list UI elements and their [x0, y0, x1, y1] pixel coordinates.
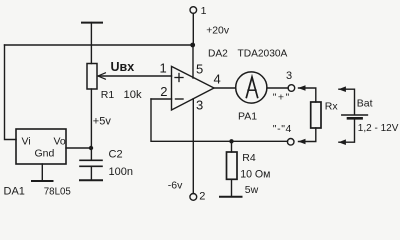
wire: pin 3 down to terminal 2 — [192, 99, 194, 194]
svg-text:1: 1 — [201, 5, 207, 17]
svg-text:R1: R1 — [101, 89, 115, 101]
wire: left rail from +20v to DA1 Vi — [5, 45, 17, 140]
svg-text:"+": "+" — [273, 91, 291, 103]
wire: pin 2 stub — [151, 98, 172, 100]
resistor Rx — [311, 102, 321, 128]
ammeter A symbol — [246, 77, 257, 97]
svg-text:5: 5 — [196, 62, 203, 77]
Rx top arrow head — [298, 85, 306, 91]
op-amp DA2 triangle — [172, 66, 215, 110]
svg-text:5w: 5w — [245, 184, 259, 196]
junction dot R4 node — [229, 139, 233, 143]
svg-text:4: 4 — [214, 72, 221, 87]
wire: R1 wiper to op-amp pin 1 (Uвх) — [99, 75, 172, 77]
wire: DA1 Gnd lead — [41, 164, 43, 181]
svg-text:Bat: Bat — [357, 98, 373, 110]
svg-text:-6v: -6v — [168, 180, 183, 192]
svg-text:PA1: PA1 — [238, 111, 257, 123]
terminal 1 (+20v input jack) — [190, 7, 197, 14]
wire: R1 bottom to +5v node — [90, 89, 92, 148]
svg-text:2: 2 — [199, 191, 205, 203]
R1 wiper arrow head — [98, 73, 106, 79]
potentiometer R1 body — [87, 64, 97, 90]
svg-text:1: 1 — [160, 61, 167, 76]
svg-text:3: 3 — [196, 98, 203, 113]
wire: DA1 Vo to +5v node — [66, 147, 91, 149]
wire: ammeter to terminal 3 — [267, 87, 288, 89]
capacitor C2 — [80, 160, 102, 166]
svg-text:3: 3 — [286, 70, 292, 82]
wire: Bat top lead — [339, 89, 355, 114]
wire: Rx top lead — [299, 88, 316, 102]
svg-text:Gnd: Gnd — [35, 148, 55, 160]
wire: terminal 1 down to rail junction — [192, 13, 194, 45]
regulator DA1 box — [16, 129, 66, 164]
svg-text:+20v: +20v — [206, 26, 230, 37]
op-amp - input symbol — [176, 98, 184, 100]
svg-text:Vi: Vi — [22, 136, 31, 148]
svg-text:R4: R4 — [242, 152, 256, 164]
Bat top arrow head — [338, 86, 346, 92]
battery Bat positive plate — [342, 114, 368, 116]
svg-text:+5v: +5v — [93, 116, 112, 128]
svg-text:"-"4: "-"4 — [273, 123, 292, 135]
svg-text:Rx: Rx — [325, 101, 339, 113]
resistor R4 — [227, 152, 238, 179]
junction dot +5v node — [89, 146, 93, 150]
Bat bottom arrow head — [338, 139, 346, 145]
svg-text:10k: 10k — [124, 89, 142, 101]
wire: Rx bottom lead — [299, 128, 316, 142]
junction dot +20v rail / pin 5 — [190, 43, 195, 48]
wire: top chassis to R1 top (crosses +20v rail) — [90, 23, 92, 64]
svg-text:Uвх: Uвх — [111, 60, 135, 74]
terminal 2 (-6v jack) — [190, 194, 197, 201]
wire: node to R4 top — [231, 141, 233, 152]
wire: +20v top rail — [5, 44, 194, 46]
wire: +5v node down to C2 — [90, 148, 92, 160]
svg-text:C2: C2 — [109, 149, 123, 161]
wire: R4 bottom to chassis — [231, 179, 233, 197]
chassis ground (R4) — [220, 196, 242, 198]
wire: Bat bottom lead — [339, 120, 355, 143]
svg-text:100n: 100n — [109, 166, 133, 178]
chassis ground (top, R1 upper end) — [82, 22, 102, 24]
terminal 4 (- output jack) — [287, 139, 294, 146]
wire: junction down to op-amp pin 5 — [192, 45, 194, 78]
svg-text:TDA2030A: TDA2030A — [238, 49, 288, 60]
wire: feedback pin 2 to R4/terminal 4 node — [151, 99, 288, 141]
wire: op-amp output pin 4 to ammeter — [214, 87, 236, 89]
svg-text:DA2: DA2 — [208, 48, 228, 59]
battery Bat negative plate — [348, 117, 362, 120]
wire: C2 bottom to chassis — [90, 166, 92, 180]
chassis ground (C2) — [80, 179, 102, 181]
svg-text:DA1: DA1 — [4, 186, 25, 198]
svg-text:Vo: Vo — [54, 136, 66, 148]
svg-text:10 Ом: 10 Ом — [240, 168, 270, 180]
terminal 3 (+ output jack) — [288, 85, 295, 92]
svg-text:2: 2 — [160, 84, 167, 99]
ammeter PA1 — [236, 72, 267, 103]
Rx bottom arrow head — [298, 139, 306, 145]
op-amp + input symbol — [175, 74, 183, 82]
svg-text:78L05: 78L05 — [44, 186, 71, 197]
svg-text:1,2 - 12V: 1,2 - 12V — [358, 123, 399, 134]
chassis ground (DA1) — [32, 180, 53, 182]
